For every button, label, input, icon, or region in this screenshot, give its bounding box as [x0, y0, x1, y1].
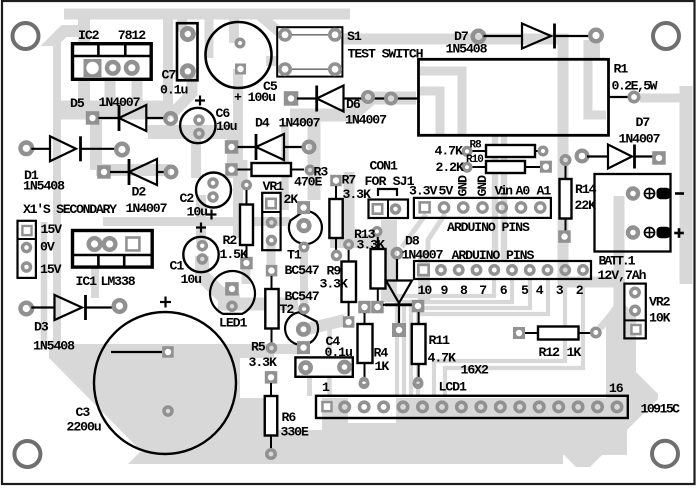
resistor R13 3.3K [373, 228, 381, 236]
wire second vertical through R1 box [588, 40, 606, 115]
svg-text:0.1u: 0.1u [325, 345, 352, 360]
wire C2 to C1 [196, 195, 206, 243]
svg-text:7: 7 [479, 283, 487, 298]
svg-text:Vin: Vin [495, 184, 514, 199]
diode D7 1N4007 [577, 151, 588, 162]
svg-text:IC1: IC1 [76, 274, 98, 289]
wire C1 to LED1 diagonal [202, 256, 224, 297]
svg-text:R8: R8 [470, 140, 483, 152]
svg-text:1K: 1K [567, 345, 582, 360]
IC regulator IC2 7812 [73, 44, 152, 80]
wire band under C6 [148, 125, 232, 139]
svg-text:15V: 15V [40, 262, 62, 277]
svg-text:R2: R2 [223, 233, 238, 248]
svg-text:3.3K: 3.3K [249, 355, 277, 370]
svg-text:3.3V: 3.3V [409, 184, 437, 199]
svg-text:R6: R6 [282, 410, 297, 425]
svg-text:16X2: 16X2 [461, 363, 489, 378]
transistor T1 BC547 [289, 211, 322, 244]
svg-text:1N4007: 1N4007 [619, 132, 661, 147]
diode D8 1N4007 [392, 249, 401, 258]
wire vertical right of T2 down to LCD [327, 324, 332, 396]
resistor R8 4.7K [463, 148, 471, 156]
diode D1 1N5408 [21, 143, 33, 155]
svg-text:A0: A0 [516, 184, 531, 199]
ground plane under LCD1 [396, 398, 627, 455]
wire trace to C5 top pad [229, 14, 239, 43]
svg-text:1N5408: 1N5408 [23, 179, 65, 194]
resistor R12 1K [513, 327, 525, 339]
connector LCD1 16 pins [316, 396, 628, 418]
svg-text:FOR SJ1: FOR SJ1 [365, 174, 415, 189]
svg-text:3.3K: 3.3K [343, 187, 371, 202]
svg-text:3.3K: 3.3K [357, 238, 385, 253]
svg-text:D8: D8 [405, 234, 420, 249]
connector CON1 for SJ1 [369, 200, 409, 219]
resistor R11 4.7K [412, 300, 425, 313]
connector arduino pins row 1 [414, 198, 551, 218]
resistor R10 2.2K [463, 163, 471, 171]
svg-text:1N4007: 1N4007 [126, 201, 168, 216]
svg-text:LED1: LED1 [219, 316, 247, 331]
wire vertical below D6 band [308, 110, 321, 200]
wire C4 left pad down to LCD [307, 375, 312, 396]
svg-text:D3: D3 [34, 320, 49, 335]
wire trace between IC2 and C7 [163, 14, 173, 110]
svg-text:8: 8 [460, 283, 468, 298]
ground plane right lobe [562, 279, 658, 467]
wire fan traces arduino row2 to LCD1 [397, 279, 494, 396]
svg-text:0.1u: 0.1u [160, 83, 187, 98]
LED LED1 [210, 271, 255, 314]
resistor R14 22K [561, 156, 569, 164]
svg-text:1N5408: 1N5408 [33, 339, 75, 354]
svg-text:D4: D4 [255, 116, 270, 131]
wire D5 horizontal band [58, 101, 170, 120]
wire D6 band [290, 98, 416, 115]
svg-text:1: 1 [322, 380, 330, 395]
wire T2 to R9 bottom diagonal [308, 320, 345, 329]
resistor R3 470E [225, 163, 238, 176]
mounting hole top-right [653, 23, 679, 49]
IC regulator IC1 LM338 [73, 231, 153, 268]
wire trace C5 to S1 [266, 56, 280, 66]
svg-text:CON1: CON1 [370, 159, 398, 174]
svg-text:R1: R1 [614, 62, 629, 77]
svg-text:R5: R5 [251, 340, 266, 355]
svg-text:12V,7Ah: 12V,7Ah [598, 268, 647, 283]
resistor R1 0.2E 5W power resistor box [419, 59, 609, 135]
wire traces under IC2 pads [105, 68, 116, 108]
preset VR1 2K [262, 193, 280, 250]
svg-text:2200u: 2200u [67, 420, 101, 435]
transistor T2 BC547 [285, 312, 318, 345]
svg-text:10u: 10u [216, 119, 237, 134]
svg-text:4.7K: 4.7K [428, 351, 456, 366]
svg-text:R11: R11 [429, 333, 451, 348]
wire VR1 to R5 [267, 242, 276, 268]
ground plane around R6 [240, 398, 278, 452]
svg-text:1N4007: 1N4007 [345, 113, 387, 128]
svg-text:5V: 5V [439, 184, 454, 199]
svg-text:4: 4 [536, 283, 544, 298]
wire R3 R7 vertical [344, 172, 355, 244]
resistor R4 1K [358, 301, 371, 314]
connector X1 secondary [18, 221, 36, 278]
wire LED1 to T2 horizontal [218, 298, 298, 311]
wire top horizontal trace [64, 9, 350, 20]
svg-text:D2: D2 [132, 185, 147, 200]
svg-text:9: 9 [441, 283, 449, 298]
svg-text:2: 2 [576, 283, 584, 298]
wire drop from D6 band to VR1 region [281, 122, 289, 210]
svg-text:7812: 7812 [118, 28, 146, 43]
ground plane band to C3 pad [49, 344, 274, 358]
wire trace left of C5 [205, 15, 214, 58]
svg-text:1N4007: 1N4007 [279, 116, 321, 131]
svg-text:ARDUINO PINS: ARDUINO PINS [447, 220, 530, 235]
ground plane bottom band [142, 432, 565, 452]
wire diagonals below arduino row1 [402, 214, 426, 247]
wire trace S1 right to relay region vertical [337, 39, 618, 282]
svg-text:10915C: 10915C [641, 402, 681, 417]
svg-text:R12: R12 [539, 345, 561, 360]
svg-text:IC2: IC2 [78, 28, 100, 43]
svg-text:1.5K: 1.5K [220, 247, 248, 262]
svg-text:T1: T1 [287, 248, 302, 263]
resistor R6 330E [265, 371, 278, 384]
wire trace under IC2 left [78, 16, 90, 108]
svg-text:22K: 22K [575, 198, 597, 213]
wire trace into S1 top-left [258, 14, 284, 36]
preset VR2 10K [624, 284, 645, 339]
svg-text:10: 10 [418, 283, 433, 298]
svg-text:10u: 10u [187, 205, 208, 220]
svg-text:GND: GND [456, 175, 471, 197]
diode D3 1N5408 [21, 303, 33, 315]
diode D5 1N4007 [86, 111, 100, 125]
battery terminal BATT.1 [595, 174, 671, 252]
svg-text:15V: 15V [41, 222, 63, 237]
svg-text:16: 16 [609, 381, 624, 396]
wire C6 to C2 [191, 132, 201, 178]
svg-text:2.2K: 2.2K [436, 160, 464, 175]
wire R3 to R2 vertical [241, 160, 248, 182]
svg-text:D7: D7 [636, 115, 651, 130]
wire D1 D2 connection [90, 120, 102, 170]
diode D4 1N4007 [225, 140, 239, 154]
wire right edge vertical to battery [680, 86, 693, 284]
switch S1 [277, 27, 342, 76]
svg-text:TEST SWITCH: TEST SWITCH [348, 47, 424, 62]
svg-text:D6: D6 [346, 97, 361, 112]
svg-text:S1: S1 [347, 29, 362, 44]
wire T1 to T2 vertical [300, 250, 308, 308]
ground plane bottom extension band [128, 452, 563, 464]
svg-text:2K: 2K [284, 192, 299, 207]
capacitor C2 10u [196, 173, 231, 208]
capacitor C4 0.1u [295, 357, 352, 376]
wire battery pad down to R12 [614, 196, 625, 310]
mounting hole bottom-right [652, 441, 678, 467]
svg-text:+ 100u: + 100u [234, 90, 275, 105]
svg-text:1K: 1K [375, 359, 390, 374]
wire horizontal band through R2 VR1 [103, 217, 290, 226]
svg-text:BATT.1: BATT.1 [599, 254, 636, 269]
diode D7 1N5408 [473, 31, 485, 43]
wire D8 right vertical [418, 250, 430, 302]
connector arduino pins row 2 [414, 261, 591, 279]
svg-text:10K: 10K [649, 311, 671, 326]
wire D7 pad down to R1 box [592, 40, 600, 59]
svg-text:D5: D5 [70, 96, 85, 111]
svg-text:6: 6 [500, 283, 508, 298]
svg-text:3: 3 [556, 283, 564, 298]
svg-text:4.7K: 4.7K [435, 144, 463, 159]
diode D2 1N4007 [97, 165, 111, 179]
svg-text:5: 5 [521, 283, 529, 298]
capacitor C1 10u [183, 237, 218, 272]
svg-text:330E: 330E [281, 425, 309, 440]
svg-text:LCD1: LCD1 [439, 380, 467, 395]
svg-text:X1'S SECONDARY: X1'S SECONDARY [23, 202, 117, 217]
wire trace to C7 top [177, 14, 187, 32]
wire R13 D8 wide vertical [381, 220, 397, 302]
svg-text:C3: C3 [76, 405, 91, 420]
wire D4 R3 vertical [227, 130, 237, 178]
svg-text:470E: 470E [294, 175, 322, 190]
pads above LCD1 [360, 378, 367, 385]
svg-text:1N4007: 1N4007 [99, 95, 141, 110]
wire diagonal C7 to D5 band [170, 75, 192, 116]
svg-text:0.2E,5W: 0.2E,5W [612, 79, 658, 94]
resistor R2 1.5K [243, 181, 251, 189]
mounting hole top-left [13, 23, 39, 49]
svg-text:A1: A1 [537, 184, 552, 199]
ground plane left lobe [49, 358, 240, 452]
wire R2 pad down [242, 264, 251, 284]
svg-text:BC547: BC547 [285, 289, 320, 304]
resistor R9 3.3K [345, 241, 353, 249]
svg-text:VR1: VR1 [263, 179, 285, 194]
svg-text:1N5408: 1N5408 [446, 42, 488, 57]
svg-text:LM338: LM338 [101, 274, 136, 289]
wire IC1 pad down to D3 [91, 252, 99, 298]
svg-text:10u: 10u [181, 272, 202, 287]
capacitor C7 0.1u [177, 23, 198, 80]
capacitor C3 2200u [94, 312, 236, 454]
wire L traces inside R1 box [420, 71, 462, 135]
svg-text:R10: R10 [466, 154, 483, 166]
svg-text:R7: R7 [342, 173, 357, 188]
svg-text:ARDUINO PINS: ARDUINO PINS [452, 248, 535, 263]
svg-text:3.3K: 3.3K [320, 277, 348, 292]
svg-text:T2: T2 [280, 302, 295, 317]
wire trace C5 bottom pad down [233, 69, 243, 238]
svg-text:BC547: BC547 [285, 263, 320, 278]
svg-text:GND: GND [475, 175, 490, 197]
resistor R5 3.3K [266, 265, 278, 277]
wire R9 top horizontal band [330, 234, 384, 248]
jumper bracket SJ1 [378, 189, 397, 196]
capacitor C6 10u [180, 108, 215, 143]
wire traces under R8 R10 [492, 135, 499, 261]
svg-text:C7: C7 [162, 68, 177, 83]
mounting hole bottom-left [14, 441, 40, 467]
svg-text:0V: 0V [40, 240, 55, 255]
wire left edge vertical trace pair [55, 31, 84, 40]
svg-text:VR2: VR2 [649, 295, 671, 310]
diode D6 1N4007 [284, 91, 299, 106]
capacitor C5 100u [206, 22, 272, 88]
resistor R7 3.3K [330, 175, 342, 187]
wire R1 right pad to right edge trace [640, 94, 686, 103]
